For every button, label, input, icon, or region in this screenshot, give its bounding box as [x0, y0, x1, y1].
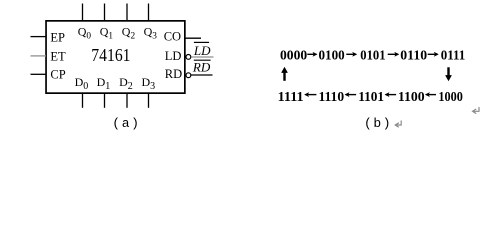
svg-text:1101: 1101	[358, 90, 384, 105]
pin LD (right wire, gray)	[191, 56, 213, 58]
pin Q0 (top wire)	[82, 4, 84, 21]
paragraph return mark after (b)	[395, 121, 401, 128]
transition arrow 1000 to 1100	[428, 94, 436, 96]
transition arrow 0111 to 1000 (down)	[447, 67, 449, 77]
transition arrow 1100 to 1101	[388, 94, 397, 96]
pin CP (left wire)	[31, 73, 47, 75]
pin Q2 (top wire)	[126, 4, 128, 21]
IC body 74161	[46, 21, 185, 93]
transition arrow 0100 to 0101	[346, 53, 354, 55]
svg-text:Q1: Q1	[100, 25, 114, 42]
svg-text:1000: 1000	[438, 90, 463, 105]
pin CO (right wire)	[185, 37, 202, 39]
transition arrow 1110 to 1111	[307, 94, 316, 96]
svg-text:ET: ET	[50, 50, 66, 64]
svg-text:D2: D2	[119, 75, 133, 92]
pin Q1 (top wire)	[104, 4, 106, 21]
pin D1 (bottom wire)	[104, 94, 106, 108]
transition arrow 0000 to 0100	[307, 53, 314, 55]
svg-text:0101: 0101	[360, 49, 385, 64]
pin RD (right wire)	[191, 74, 213, 76]
svg-text:1100: 1100	[398, 90, 425, 105]
svg-text:D1: D1	[97, 75, 111, 92]
svg-text:(b): (b)	[364, 116, 392, 131]
paragraph return mark after state row	[473, 107, 479, 114]
pin ET (left wire, gray)	[31, 55, 47, 57]
svg-text:1111: 1111	[278, 90, 304, 105]
svg-text:CO: CO	[164, 30, 181, 44]
svg-text:0000: 0000	[280, 49, 307, 64]
svg-text:0100: 0100	[319, 49, 345, 64]
transition arrow 1101 to 1110	[348, 94, 357, 96]
inversion bubble on RD pin	[186, 73, 191, 78]
transition arrow 0110 to 0111	[428, 53, 436, 55]
svg-text:Q3: Q3	[144, 25, 158, 42]
pin Q3 (top wire)	[148, 4, 150, 21]
inversion bubble on LD pin	[186, 55, 191, 60]
svg-text:CP: CP	[50, 67, 65, 81]
svg-text:Q2: Q2	[122, 25, 136, 42]
svg-text:EP: EP	[50, 30, 65, 44]
svg-text:1110: 1110	[319, 90, 345, 105]
svg-text:(a): (a)	[112, 116, 140, 131]
svg-text:RD: RD	[192, 60, 211, 75]
transition arrow 0101 to 0110	[388, 53, 397, 55]
svg-text:0110: 0110	[400, 49, 427, 64]
transition arrow 1111 to 0000 (up)	[283, 71, 285, 81]
svg-text:RD: RD	[165, 67, 182, 81]
svg-text:0111: 0111	[441, 49, 466, 64]
pin D3 (bottom wire)	[148, 94, 150, 108]
svg-text:D0: D0	[75, 75, 89, 92]
pin D0 (bottom wire)	[82, 94, 84, 108]
svg-text:D3: D3	[142, 75, 156, 92]
svg-text:LD: LD	[193, 43, 211, 58]
svg-text:LD: LD	[165, 49, 182, 63]
pin D2 (bottom wire)	[126, 94, 128, 108]
pin EP (left wire)	[31, 36, 47, 38]
svg-text:Q0: Q0	[78, 25, 92, 42]
svg-text:74161: 74161	[91, 45, 130, 65]
